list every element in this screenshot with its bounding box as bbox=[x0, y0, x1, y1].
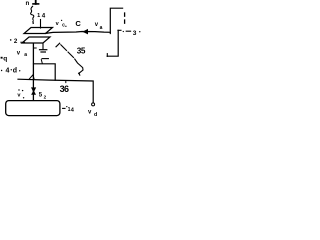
svg-text:1: 1 bbox=[37, 13, 40, 19]
svg-text:4: 4 bbox=[42, 12, 46, 19]
svg-text:3: 3 bbox=[133, 30, 137, 37]
svg-text:35: 35 bbox=[77, 47, 86, 56]
svg-text:2: 2 bbox=[44, 95, 47, 100]
svg-text:4: 4 bbox=[6, 67, 10, 74]
svg-text:q: q bbox=[3, 55, 7, 62]
svg-text:n: n bbox=[26, 0, 30, 7]
svg-text:c: c bbox=[62, 23, 65, 29]
svg-text:36: 36 bbox=[60, 84, 69, 94]
svg-text:C: C bbox=[75, 19, 81, 28]
svg-text:2: 2 bbox=[14, 38, 18, 45]
svg-text:a: a bbox=[24, 52, 27, 58]
svg-text:d: d bbox=[13, 67, 17, 74]
svg-text:d: d bbox=[94, 112, 97, 118]
svg-text:a: a bbox=[100, 25, 103, 31]
